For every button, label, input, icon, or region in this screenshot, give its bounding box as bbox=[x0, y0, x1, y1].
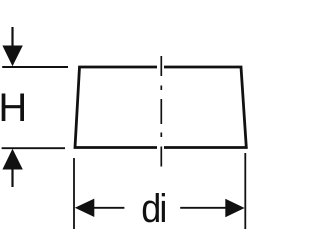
H dimension bottom line bbox=[2, 147, 65, 149]
di left extension line bbox=[73, 158, 75, 229]
di right extension line bbox=[244, 153, 246, 229]
di dimension line left segment bbox=[94, 207, 125, 209]
di right arrowhead bbox=[225, 199, 244, 217]
trapezoid body right portion bbox=[164, 67, 246, 148]
H bottom arrow stem bbox=[11, 169, 13, 187]
svg-text:H: H bbox=[0, 86, 27, 130]
H top arrowhead bbox=[2, 46, 22, 67]
trapezoid body left portion bbox=[75, 67, 157, 148]
H bottom arrowhead bbox=[2, 149, 22, 170]
H top arrow stem bbox=[11, 27, 13, 47]
H dimension top line bbox=[2, 66, 68, 68]
di left arrowhead bbox=[75, 199, 95, 217]
di dimension line right segment bbox=[180, 207, 226, 209]
centerline (dash-dot) bbox=[160, 56, 162, 167]
svg-text:di: di bbox=[141, 187, 165, 231]
